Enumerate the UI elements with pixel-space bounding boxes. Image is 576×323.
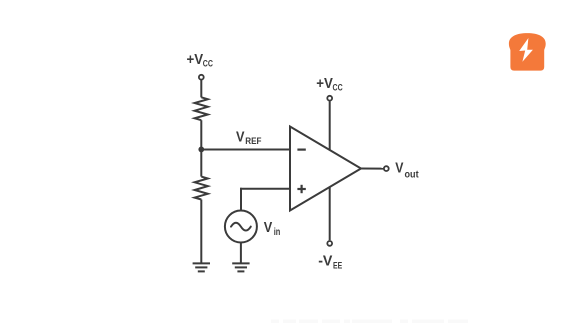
resistor R1 (upper divider resistor) xyxy=(195,97,208,120)
svg-text:REF: REF xyxy=(245,136,262,146)
wire from resistor R1 to node VREF xyxy=(200,120,202,149)
wire VREF to op-amp inverting input xyxy=(201,149,289,151)
op-amp inverting input minus symbol xyxy=(297,149,305,151)
power terminal +VCC (divider branch) xyxy=(199,75,204,80)
wire from resistor R2 to ground xyxy=(200,200,202,264)
wire op-amp -VEE supply xyxy=(329,187,331,240)
wire from +VCC terminal to resistor R1 xyxy=(200,80,202,98)
label +VCC (divider branch) xyxy=(187,51,214,68)
label -VEE xyxy=(318,253,342,271)
logo CircuitBread bread slice xyxy=(509,33,546,71)
source Vin (AC sine source) xyxy=(225,211,257,243)
wire op-amp +VCC supply xyxy=(329,101,331,150)
ground (divider branch) xyxy=(193,263,210,271)
op-amp U1 triangle xyxy=(290,127,361,211)
svg-text:-V: -V xyxy=(318,253,332,270)
svg-text:CC: CC xyxy=(203,58,214,68)
label Vout xyxy=(395,160,419,180)
output terminal Vout xyxy=(384,166,389,171)
logo lightning bolt xyxy=(519,38,533,62)
wire from node VREF down to resistor R2 xyxy=(200,149,202,176)
svg-text:V: V xyxy=(395,160,403,176)
wire from + input down to source Vin xyxy=(240,188,242,211)
label VREF xyxy=(236,129,262,147)
label +VCC (op-amp) xyxy=(316,75,343,92)
wire op-amp non-inverting input xyxy=(240,188,290,190)
resistor R2 (lower divider resistor) xyxy=(195,177,208,200)
svg-text:EE: EE xyxy=(333,260,342,270)
svg-text:CC: CC xyxy=(333,82,344,92)
node VREF junction dot xyxy=(198,147,204,153)
wire op-amp output xyxy=(361,168,383,170)
svg-text:in: in xyxy=(274,227,281,238)
svg-text:+V: +V xyxy=(187,51,204,68)
svg-text:+V: +V xyxy=(316,75,333,92)
op-amp non-inverting input plus symbol xyxy=(297,185,305,193)
svg-text:out: out xyxy=(405,169,420,180)
power terminal +VCC (op-amp) xyxy=(327,96,332,101)
ground (source branch) xyxy=(232,263,249,271)
power terminal -VEE (op-amp) xyxy=(327,241,332,246)
svg-text:V: V xyxy=(236,129,245,146)
watermark fragments (cut-off caption at bottom edge) xyxy=(271,319,468,323)
label Vin xyxy=(264,219,281,238)
wire from source Vin to ground xyxy=(240,243,242,264)
svg-text:V: V xyxy=(264,219,273,236)
